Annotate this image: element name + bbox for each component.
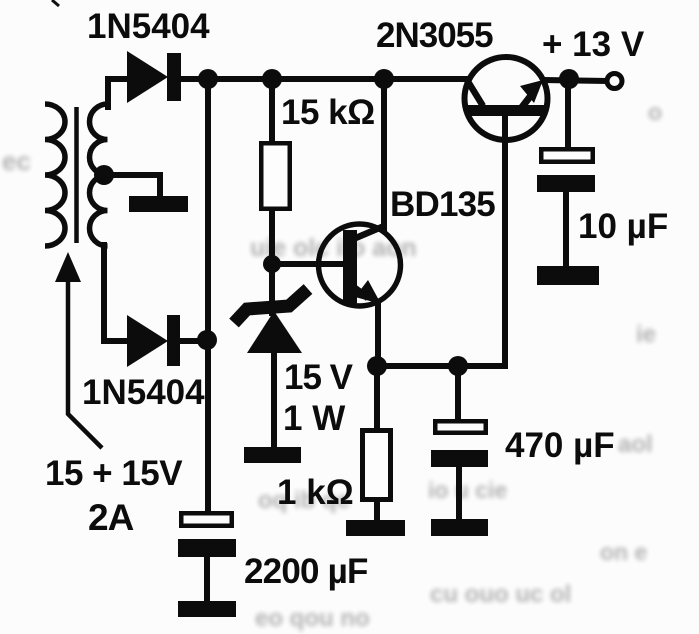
wire secondary bottom lead to diode D2 anode — [104, 245, 127, 341]
svg-text:15 kΩ: 15 kΩ — [281, 93, 375, 132]
diode D1 cathode bar — [167, 53, 181, 101]
bleed-through faint print artifacts — [2, 99, 662, 632]
transistor Q1 base bar — [343, 230, 357, 303]
wire node D down to Q1 collector — [381, 79, 387, 230]
wire node C down to zener D3 — [269, 264, 275, 313]
ground C3 bar — [537, 266, 599, 285]
node F — [367, 356, 387, 376]
svg-text:cu ouo uc ol: cu ouo uc ol — [430, 581, 571, 608]
node output — [559, 69, 579, 89]
svg-text:1 kΩ: 1 kΩ — [277, 473, 354, 512]
wire unregulated rail vertical (node A down to C1) — [205, 79, 211, 513]
capacitor C2 bottom plate — [431, 450, 488, 467]
svg-text:o: o — [648, 99, 662, 125]
transistor Q1 collector stroke — [351, 226, 384, 240]
svg-text:eo qou no: eo qou no — [255, 605, 370, 632]
wire Q2 base lead down — [502, 114, 508, 366]
wire output node down to C3 — [565, 80, 571, 149]
transistor Q2 emitter stroke with arrow — [520, 80, 543, 107]
scan speck top-left — [52, 0, 59, 6]
node G — [448, 356, 468, 376]
wire Q2 emitter to output terminal — [544, 80, 605, 81]
diode D1 1N5404 triangle — [127, 51, 168, 103]
wire R2 to ground — [374, 500, 380, 522]
svg-text:2N3055: 2N3055 — [376, 16, 493, 55]
svg-text:1N5404: 1N5404 — [82, 373, 205, 412]
ground R2 bar — [346, 520, 405, 536]
ground center tap bar — [129, 196, 188, 212]
diode D2 cathode bar — [167, 315, 180, 366]
capacitor C1 2200uF top plate — [181, 513, 232, 526]
svg-text:ie: ie — [636, 321, 656, 348]
transformer T1 primary winding — [45, 104, 65, 246]
svg-text:on e: on e — [600, 539, 647, 565]
capacitor C3 bottom plate — [537, 175, 595, 192]
wire C3 to ground — [563, 190, 569, 268]
output terminal circle — [607, 74, 622, 89]
wire zener D3 anode to ground — [271, 351, 277, 449]
zener D3 anode triangle — [247, 311, 302, 353]
wire top rail D1 cathode to Q2 collector — [181, 76, 468, 82]
svg-text:2A: 2A — [88, 497, 134, 538]
capacitor C1 bottom plate — [178, 539, 236, 557]
wire C2 to ground — [456, 465, 462, 521]
transistor Q1 BD135 circle — [319, 224, 401, 306]
wire center tap to ground — [106, 175, 160, 198]
svg-text:aol: aol — [618, 431, 653, 458]
capacitor C2 470uF top plate — [435, 421, 486, 433]
ground C1 bar — [178, 601, 236, 617]
node C — [263, 255, 281, 273]
transformer T1 core — [74, 107, 79, 243]
annotation arrow 15+15V — [55, 252, 102, 448]
wire bottom run node F to Q2 base corner — [377, 363, 505, 369]
transistor Q2 base bar — [465, 105, 545, 116]
wire secondary top lead to diode D1 anode — [108, 79, 127, 107]
transistor Q2 2N3055 circle — [465, 57, 548, 140]
transistor Q1 emitter stroke with arrow — [352, 280, 381, 304]
node E — [197, 330, 217, 350]
svg-text:ec: ec — [2, 146, 31, 176]
svg-text:15 V: 15 V — [284, 358, 354, 397]
ground C2 bar — [431, 519, 488, 536]
wire node F to R2 — [374, 366, 380, 430]
transformer T1 secondary winding — [90, 104, 108, 246]
wire D2 cathode to node E — [180, 338, 206, 344]
wire node G to C2 — [455, 366, 461, 421]
svg-text:10 µF: 10 µF — [578, 207, 668, 246]
transistor Q2 collector stroke — [467, 80, 483, 106]
wire node B down to R1 — [269, 79, 275, 143]
svg-text:15 + 15V: 15 + 15V — [45, 454, 183, 493]
wire Q1 emitter down to node F — [375, 303, 381, 366]
svg-text:1N5404: 1N5404 — [87, 7, 210, 46]
diode D2 1N5404 triangle — [127, 315, 168, 367]
zener D3 cathode bent bar — [234, 289, 308, 323]
node D — [374, 69, 394, 89]
node A — [198, 69, 218, 89]
ground zener bar — [244, 447, 301, 463]
resistor R2 1k — [363, 431, 391, 500]
svg-text:+ 13 V: + 13 V — [542, 25, 645, 64]
resistor R1 15k — [261, 143, 290, 209]
svg-text:io u cie: io u cie — [428, 477, 507, 503]
svg-text:470 µF: 470 µF — [505, 426, 615, 465]
svg-text:2200 µF: 2200 µF — [244, 552, 368, 591]
wire C1 to ground — [204, 555, 210, 603]
wire R1 to node C — [269, 210, 275, 266]
node B — [262, 69, 282, 89]
svg-text:BD135: BD135 — [390, 185, 495, 224]
capacitor C3 10uF top plate — [541, 149, 593, 162]
svg-text:1 W: 1 W — [283, 399, 345, 438]
node center tap — [94, 165, 114, 185]
wire node C to Q1 base — [272, 261, 343, 267]
